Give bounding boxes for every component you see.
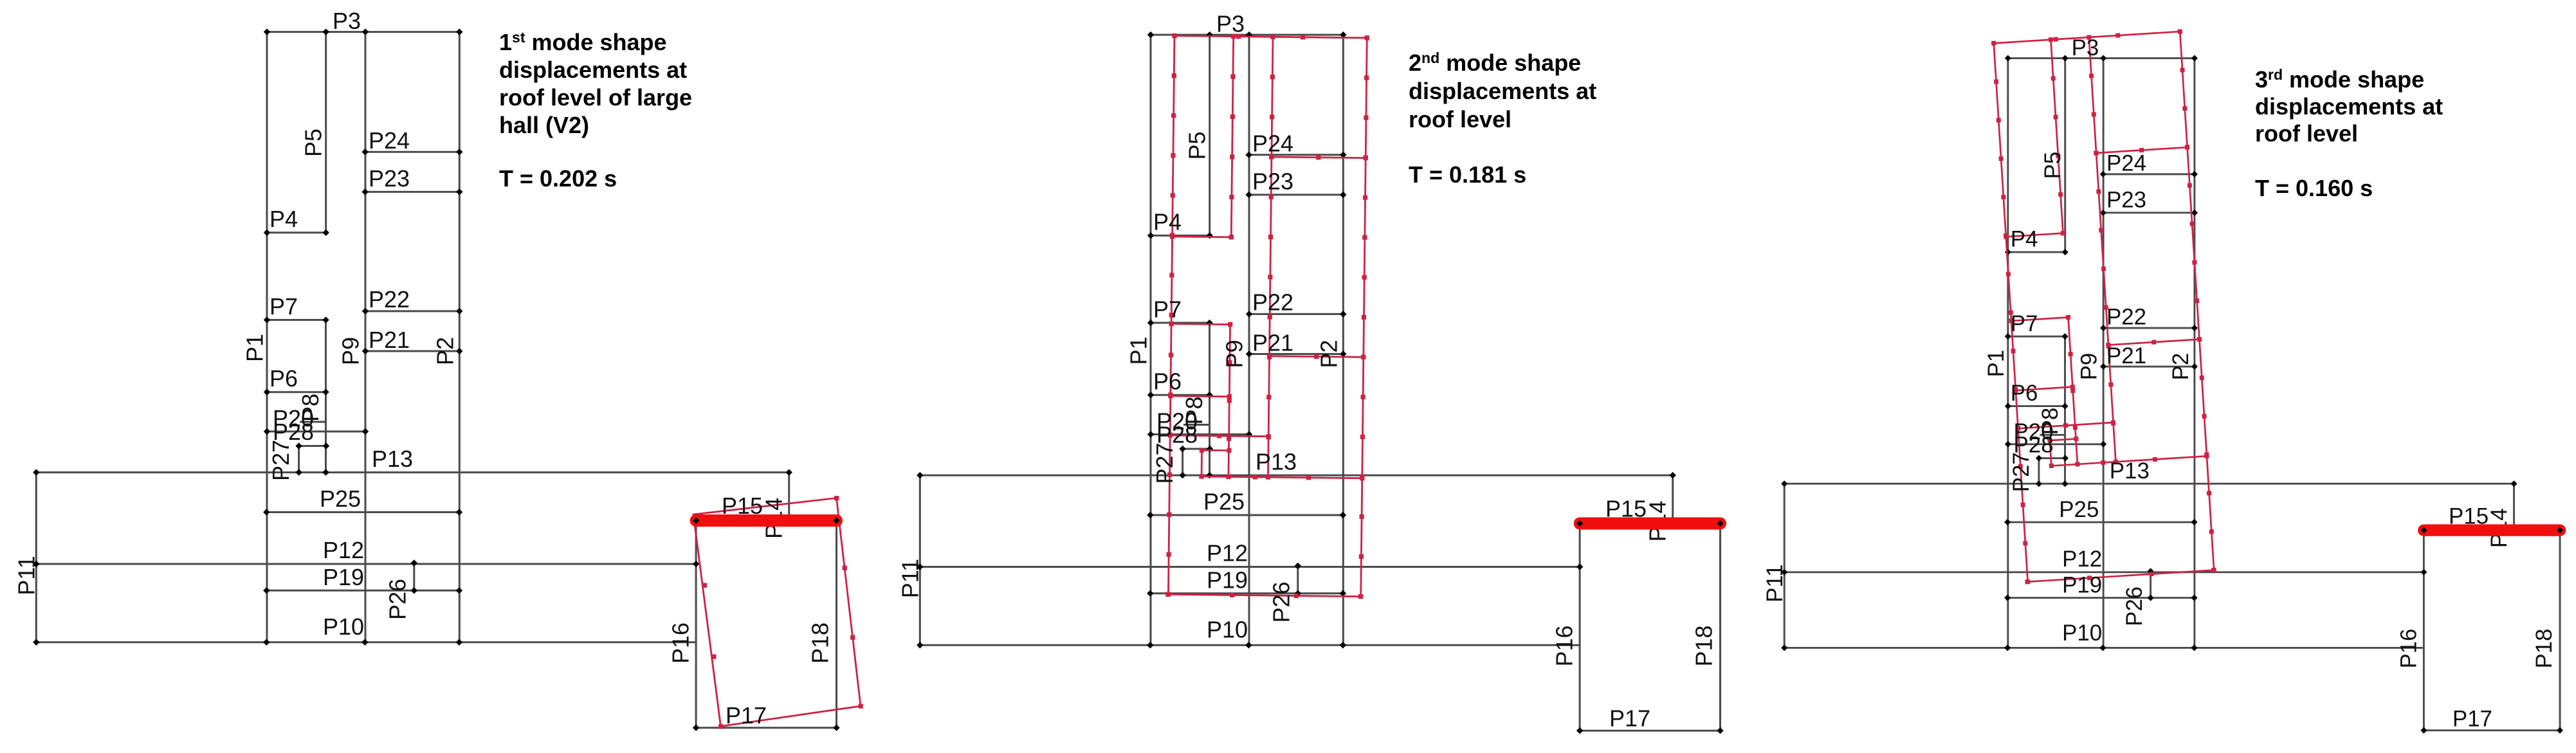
deformed wall P2	[2180, 32, 2214, 570]
wall P22	[365, 310, 459, 312]
svg-text:P21: P21	[369, 327, 410, 353]
svg-text:P4: P4	[269, 206, 298, 232]
deformed wall P27	[1201, 450, 1203, 476]
wall P16 (left of annex)	[1579, 524, 1581, 731]
svg-text:P22: P22	[2106, 304, 2146, 329]
svg-text:P6: P6	[2011, 381, 2038, 406]
wall P23	[365, 191, 460, 193]
small interior wall	[299, 445, 326, 447]
wall P24	[2103, 173, 2195, 175]
svg-text:P1: P1	[1126, 336, 1152, 365]
wall P17 (bottom of annex)	[696, 727, 836, 729]
deformed wall P9	[2089, 37, 2116, 462]
wall P15 (top of annex)	[696, 520, 836, 522]
svg-text:P13: P13	[372, 446, 413, 472]
wall P4	[1151, 235, 1210, 237]
svg-text:P2: P2	[432, 337, 459, 365]
svg-text:P23: P23	[369, 165, 410, 192]
wall P28	[2008, 443, 2103, 445]
panel 2 : 2nd mode	[897, 11, 1724, 734]
svg-text:P4: P4	[2011, 227, 2038, 252]
wall P9 (vertical)	[2103, 59, 2105, 648]
wall P22	[1249, 313, 1343, 315]
wall P21	[2103, 366, 2195, 368]
svg-text:roof level: roof level	[1409, 106, 1512, 132]
wall P15 displacement bar (thick red)	[2424, 524, 2560, 536]
svg-text:P11: P11	[14, 556, 40, 595]
svg-text:P21: P21	[1252, 330, 1293, 356]
wall P18 (right of annex)	[2559, 531, 2561, 730]
wall P17 (bottom of annex)	[1580, 730, 1720, 732]
svg-text:P9: P9	[338, 337, 364, 365]
red node markers on deformed annex	[702, 496, 863, 729]
deformed wall P4	[1173, 237, 1232, 237]
wall P20 (short)	[300, 421, 326, 423]
wall P26 (vertical)	[413, 563, 415, 591]
svg-text:P18: P18	[2532, 629, 2557, 669]
wall P26 (vertical)	[1297, 566, 1299, 594]
svg-text:roof level: roof level	[2255, 120, 2358, 147]
deformed wall P6	[2016, 387, 2073, 391]
svg-text:P5: P5	[2040, 152, 2065, 179]
svg-text:displacements at: displacements at	[1409, 78, 1596, 104]
deformed wall P24	[2096, 147, 2188, 153]
svg-text:P24: P24	[2106, 151, 2146, 176]
deformed wall P8	[2069, 317, 2078, 464]
wall P18 (right of annex)	[836, 521, 837, 728]
deformed wall P13	[2051, 456, 2207, 466]
wall P18 (right of annex)	[1719, 524, 1721, 731]
svg-text:P19: P19	[323, 564, 364, 590]
svg-text:P8: P8	[2038, 408, 2063, 435]
svg-text:P16: P16	[2396, 629, 2421, 669]
svg-text:P6: P6	[269, 365, 298, 392]
deformed wall P1	[1168, 36, 1174, 595]
wall P15 (top of annex)	[1580, 523, 1720, 525]
wall P14 (vertical stub)	[1672, 475, 1674, 523]
wall P8 (vertical)	[325, 320, 327, 473]
wall P10 (long bottom)	[920, 644, 1580, 646]
svg-text:P13: P13	[2110, 458, 2150, 484]
svg-text:P7: P7	[1153, 296, 1182, 323]
deformed wall P27	[2050, 440, 2051, 466]
svg-text:P23: P23	[2106, 188, 2146, 213]
svg-text:P24: P24	[1252, 131, 1293, 157]
wall P17 (bottom of annex)	[2424, 729, 2560, 731]
svg-text:P4: P4	[1153, 209, 1182, 235]
wall P9 (vertical)	[365, 32, 367, 642]
wall P14 (vertical stub)	[2513, 484, 2515, 531]
wall P16 (left of annex)	[2423, 531, 2425, 730]
wall P27 (vertical)	[298, 446, 300, 473]
svg-text:P12: P12	[2062, 547, 2102, 572]
svg-text:P27: P27	[2009, 452, 2034, 492]
wall P15 (top of annex)	[2424, 530, 2560, 532]
wall P5 (vertical)	[325, 32, 327, 233]
wall P21	[365, 350, 459, 352]
wall P27 (vertical)	[1182, 449, 1183, 475]
svg-text:P3: P3	[2072, 35, 2099, 60]
svg-text:P22: P22	[369, 286, 410, 313]
svg-text:P5: P5	[300, 129, 327, 157]
wall P13 (long horizontal)	[36, 471, 789, 473]
wall P22	[2103, 327, 2195, 329]
svg-text:P17: P17	[726, 702, 767, 729]
svg-text:P16: P16	[1551, 625, 1578, 666]
wall P13 (long horizontal)	[920, 475, 1672, 476]
wall P15 displacement bar (thick red)	[696, 514, 836, 527]
wall P12 (long horizontal)	[1784, 571, 2424, 573]
svg-text:P5: P5	[1184, 131, 1210, 159]
deformed wall P8	[1229, 325, 1230, 477]
wall P11 (left end of hall)	[919, 475, 921, 645]
black end dots on red bar	[1576, 520, 1583, 527]
svg-text:P26: P26	[1268, 581, 1295, 622]
deformed wall P2	[1361, 38, 1367, 597]
wall P20 (short)	[1183, 424, 1210, 426]
wall P14 (vertical stub)	[788, 473, 790, 521]
svg-text:roof level of large: roof level of large	[499, 84, 692, 111]
svg-text:displacements at: displacements at	[499, 57, 687, 83]
wall P28	[267, 431, 365, 433]
svg-text:P18: P18	[807, 622, 834, 664]
wall P23	[1249, 194, 1344, 195]
svg-text:P10: P10	[323, 613, 364, 640]
deformed small wall	[2050, 439, 2076, 440]
wall P19	[266, 590, 459, 592]
small interior wall	[1183, 448, 1210, 450]
deformed wall P9	[1268, 37, 1273, 477]
svg-text:P19: P19	[1207, 567, 1248, 594]
wall P6	[2008, 405, 2065, 407]
wall P5 (vertical)	[2064, 59, 2066, 253]
wall P8 (vertical)	[1209, 323, 1210, 475]
svg-text:T = 0.160 s: T = 0.160 s	[2255, 175, 2373, 201]
svg-text:P12: P12	[1207, 540, 1248, 567]
svg-text:P9: P9	[2076, 353, 2101, 381]
svg-text:P3: P3	[333, 8, 361, 34]
svg-text:P12: P12	[323, 537, 364, 563]
wall P10 (long bottom)	[36, 641, 696, 643]
svg-text:P7: P7	[269, 293, 298, 320]
deformed wall P7	[1171, 324, 1230, 325]
svg-text:P10: P10	[2062, 621, 2102, 646]
deformed small wall	[1202, 449, 1229, 451]
deformed wall P19	[1168, 594, 1361, 596]
deformed wall P3	[1994, 32, 2180, 43]
wall P1 (left edge of tower)	[2007, 59, 2009, 648]
svg-text:P17: P17	[2453, 706, 2492, 731]
deformed annex outline (red quad, 1st mode)	[693, 498, 861, 727]
svg-text:P9: P9	[1221, 340, 1248, 368]
wall P15 displacement bar (thick red)	[1580, 518, 1720, 530]
deformed wall P21	[2108, 340, 2200, 345]
svg-text:P10: P10	[1207, 617, 1248, 643]
svg-text:P1: P1	[1984, 350, 2009, 377]
svg-text:P2: P2	[1316, 340, 1342, 368]
deformed wall P5	[1231, 37, 1233, 237]
svg-text:P25: P25	[320, 485, 361, 512]
svg-text:P17: P17	[1609, 705, 1650, 732]
wall P12 (long horizontal)	[920, 566, 1580, 568]
wall P27 (vertical)	[2038, 458, 2040, 484]
svg-text:T = 0.181 s: T = 0.181 s	[1409, 161, 1526, 188]
wall P1 (left edge of tower)	[266, 32, 268, 642]
wall P16 (left of annex)	[695, 521, 697, 728]
wall P25	[1150, 514, 1343, 516]
wall P1 (left edge of tower)	[1150, 35, 1152, 645]
svg-text:P26: P26	[385, 579, 411, 620]
svg-text:displacements at: displacements at	[2255, 93, 2443, 120]
svg-text:P6: P6	[1153, 368, 1182, 395]
svg-text:P3: P3	[1216, 11, 1245, 37]
wall P26 (vertical)	[2150, 571, 2151, 597]
svg-text:P27: P27	[1151, 442, 1178, 484]
wall P12 (long horizontal)	[36, 563, 696, 565]
wall P25	[2007, 522, 2194, 523]
wall P6	[267, 391, 326, 393]
deformed wall P3	[1174, 36, 1367, 38]
deformed wall P28	[2018, 422, 2114, 428]
wall P11 (left end of hall)	[35, 473, 37, 642]
svg-text:P16: P16	[668, 622, 694, 664]
wall P2 (right edge of tower)	[459, 32, 461, 642]
wall P4	[2008, 251, 2065, 253]
wall P8 (vertical)	[2064, 336, 2066, 484]
svg-text:P7: P7	[2011, 311, 2038, 336]
wall P2 (right edge of tower)	[1342, 35, 1344, 645]
svg-text:P21: P21	[2106, 343, 2146, 368]
wall P19	[1150, 592, 1343, 594]
wall P9 (vertical)	[1248, 35, 1250, 645]
wall P24	[365, 151, 460, 153]
wall P3 (top edge of tower)	[2008, 57, 2195, 59]
wall P7	[1151, 322, 1210, 324]
svg-text:hall (V2): hall (V2)	[499, 112, 589, 138]
svg-text:P19: P19	[2062, 573, 2102, 598]
deformed wall P1	[1994, 43, 2028, 582]
deformed wall P4	[2006, 233, 2063, 237]
svg-text:P24: P24	[369, 127, 410, 154]
small interior wall	[2039, 457, 2065, 459]
deformed wall P21	[1270, 356, 1364, 358]
wall P4	[267, 231, 326, 233]
wall P7	[2008, 336, 2065, 338]
wall P19	[2007, 597, 2194, 599]
panel 3 : 3rd mode	[1762, 29, 2563, 733]
wall P20 (short)	[2040, 434, 2065, 436]
wall P11 (left end of hall)	[1784, 484, 1786, 648]
deformed wall P19	[2027, 570, 2214, 582]
svg-text:P23: P23	[1252, 168, 1293, 195]
svg-text:P11: P11	[897, 559, 924, 598]
wall P24	[1249, 154, 1344, 156]
deformed wall P13	[1201, 476, 1362, 478]
wall P5 (vertical)	[1209, 35, 1210, 235]
svg-text:P11: P11	[1762, 565, 1787, 603]
black end dots on red bar	[693, 517, 699, 523]
wall P2 (right edge of tower)	[2193, 59, 2195, 648]
wall P23	[2103, 212, 2195, 213]
svg-text:P26: P26	[2122, 586, 2147, 626]
deformed wall P24	[1272, 157, 1366, 158]
panel 1 : 1st mode	[14, 8, 863, 731]
svg-text:P18: P18	[1691, 625, 1717, 666]
svg-text:T = 0.202 s: T = 0.202 s	[499, 165, 617, 192]
deformed wall P7	[2011, 317, 2069, 321]
wall P10 (long bottom)	[1784, 647, 2424, 649]
deformed wall P5	[2051, 40, 2063, 233]
svg-text:P2: P2	[2168, 353, 2193, 381]
svg-text:P25: P25	[1203, 489, 1245, 515]
wall P3 (top edge of tower)	[1151, 34, 1343, 36]
wall P28	[1151, 433, 1249, 435]
wall P21	[1249, 353, 1343, 355]
wall P25	[266, 511, 459, 513]
svg-text:P1: P1	[242, 334, 268, 362]
wall P3 (top edge of tower)	[267, 31, 459, 33]
svg-text:P22: P22	[1252, 289, 1293, 316]
wall P13 (long horizontal)	[1784, 483, 2514, 485]
wall P6	[1151, 394, 1210, 396]
svg-text:P27: P27	[268, 440, 294, 481]
svg-text:P25: P25	[2059, 497, 2099, 522]
deformed wall P28	[1170, 435, 1268, 437]
svg-text:P8: P8	[297, 394, 324, 422]
black end dots on red bar	[2420, 527, 2427, 534]
svg-text:P13: P13	[1256, 449, 1297, 475]
svg-text:P8: P8	[1181, 396, 1207, 424]
wall P7	[267, 319, 326, 321]
deformed wall P6	[1171, 396, 1229, 397]
